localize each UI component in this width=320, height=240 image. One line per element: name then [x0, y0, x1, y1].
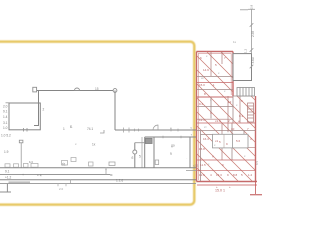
corridor wall y=167.8: [0, 167, 196, 169]
hatch line: [125, 40, 270, 185]
top short horizontal: [240, 9, 248, 11]
white room boxes in red zone: [213, 134, 249, 148]
interior horizontal y=142.7: [135, 142, 145, 144]
red mark bottom right: [255, 182, 257, 195]
door box at x=110: [109, 162, 115, 166]
small closet box: [155, 160, 159, 165]
svg-text:+: +: [229, 185, 231, 189]
internal wall y=147.7: [228, 147, 256, 149]
red internal wall y=170.7: [197, 170, 256, 172]
tick x=70: [70, 180, 72, 184]
svg-text:74.1: 74.1: [87, 127, 93, 131]
inner wall y=174.5 left part: [0, 174, 110, 176]
hatch line: [209, 40, 320, 185]
wall: east wall of hall upper: [114, 91, 116, 131]
red internal wall y=82.5: [197, 82, 234, 84]
tick on wall: [170, 129, 172, 132]
slash tick 2: [250, 48, 254, 52]
short gray step segment: [186, 170, 197, 172]
svg-text:15: 15: [95, 87, 99, 91]
dark window band on base line: [9, 181, 31, 183]
svg-text:13.3: 13.3: [216, 173, 222, 177]
red bottom second line: [197, 184, 257, 186]
svg-text:х: х: [236, 103, 238, 107]
yellow highlight box: [0, 42, 194, 205]
wall: long wall y=128.7: [115, 129, 196, 131]
door ticks at x=113-121: [123, 128, 125, 133]
svg-text:9.1: 9.1: [5, 170, 10, 174]
svg-text:.: .: [187, 156, 188, 160]
svg-text:х1: х1: [215, 139, 219, 143]
top tick: [248, 8, 255, 10]
svg-text:х1.3: х1.3: [215, 119, 221, 123]
internal wall y=123: [197, 122, 256, 124]
svg-text:Б: Б: [70, 125, 73, 129]
internal wall y=160: [197, 159, 256, 161]
door gap ticks on wall D: [134, 129, 136, 132]
hatch line: [111, 40, 256, 185]
svg-text:2.0: 2.0: [59, 187, 64, 191]
short vertical x=106: [105, 168, 107, 175]
svg-text:3.60: 3.60: [251, 57, 255, 63]
svg-text:5: 5: [241, 173, 243, 177]
internal wall y=132: [197, 130, 256, 132]
svg-text:+: +: [22, 173, 24, 177]
svg-text:8.5: 8.5: [255, 160, 259, 165]
annex top tick: [6, 102, 10, 104]
hatch line: [139, 40, 284, 185]
svg-text:1х: 1х: [92, 143, 96, 147]
internal vertical x=240: [239, 96, 241, 123]
red building outline: [197, 52, 258, 182]
svg-text:8.3: 8.3: [239, 114, 244, 118]
slash tick 3: [250, 65, 254, 69]
svg-text:+ 4: + 4: [37, 174, 42, 178]
marker square at left end of top wall: [33, 87, 37, 92]
red internal wall y=106.5: [197, 106, 234, 108]
svg-text:16.4: 16.4: [203, 137, 209, 141]
door swing on wall: [153, 125, 158, 130]
svg-text:3.1: 3.1: [3, 121, 8, 125]
svg-text:ю: ю: [110, 173, 113, 177]
room top y=134.5: [201, 134, 249, 136]
hatch line: [97, 40, 242, 185]
svg-text:6: 6: [200, 56, 202, 60]
red room labels: [199, 56, 253, 193]
hatch line: [223, 40, 320, 185]
svg-text:10: 10: [231, 127, 235, 131]
svg-text:1 2.6: 1 2.6: [116, 179, 123, 183]
interior vertical x=190: [189, 137, 191, 168]
small boxes near corridor: [62, 161, 68, 166]
svg-text:д: д: [212, 154, 214, 158]
svg-text:8.8: 8.8: [233, 173, 238, 177]
red hatch diagonals: [55, 40, 320, 185]
internal vertical x=228 low: [227, 96, 229, 132]
tick on wall y=137: [162, 136, 164, 138]
ticks below base line: [57, 184, 59, 187]
hatch line: [69, 40, 214, 185]
svg-text:с: с: [191, 126, 193, 130]
svg-text:1.9: 1.9: [4, 150, 9, 154]
hatch line: [237, 40, 320, 185]
left annex room outline: [9, 103, 40, 130]
hatch line: [153, 40, 298, 185]
svg-text:хт: хт: [204, 125, 207, 129]
red internal wall y=97: [197, 96, 234, 98]
svg-text:1.2: 1.2: [244, 48, 248, 53]
dark shaft box: [145, 138, 152, 143]
svg-text:2: 2: [228, 119, 230, 123]
svg-text:1.4: 1.4: [3, 115, 8, 119]
porch at bottom left: [0, 184, 7, 192]
svg-text:х: х: [218, 71, 220, 75]
svg-text:12.1: 12.1: [199, 118, 205, 122]
wall: top facade of left building: [35, 90, 116, 92]
svg-text:х2.1: х2.1: [193, 164, 199, 168]
staircase comb top: [237, 88, 255, 97]
svg-text:б1: б1: [62, 163, 66, 167]
svg-text:15.8: 15.8: [199, 147, 205, 151]
svg-text:5.6: 5.6: [236, 139, 241, 143]
interior wall y=137: [145, 136, 196, 138]
svg-text:2: 2: [43, 108, 45, 112]
svg-text:12.6: 12.6: [199, 173, 205, 177]
interior vertical x=134.8 with circle: [134, 143, 136, 168]
svg-text:15.0: 15.0: [199, 83, 205, 87]
hatch line: [195, 40, 320, 185]
svg-text:11.5: 11.5: [200, 163, 206, 167]
hatch line: [167, 40, 312, 185]
red internal wall y=89.6: [197, 89, 234, 91]
interior vertical x=154: [153, 137, 155, 168]
svg-text:13: 13: [228, 100, 232, 104]
svg-text:ь с: ь с: [29, 160, 34, 164]
svg-text:9: 9: [241, 99, 243, 103]
svg-text:1х: 1х: [233, 40, 237, 44]
svg-text:4: 4: [210, 173, 212, 177]
marker circle on top wall: [75, 88, 80, 91]
hatch line: [251, 40, 320, 185]
svg-text:9.4: 9.4: [199, 102, 204, 106]
room vertical x=244: [243, 131, 245, 148]
internal vertical x=233 low: [232, 96, 234, 123]
internal vertical x=222: [221, 52, 223, 65]
south facade y=179.8: [0, 179, 196, 181]
svg-text:х: х: [75, 142, 77, 146]
svg-text:5: 5: [215, 63, 217, 67]
slash tick 1: [250, 23, 254, 27]
svg-text:9: 9: [170, 152, 172, 156]
hatch line: [83, 40, 228, 185]
svg-text:15.0 1: 15.0 1: [215, 189, 225, 193]
svg-text:14.9: 14.9: [203, 68, 209, 72]
svg-text:5: 5: [139, 155, 141, 159]
hatch line: [181, 40, 320, 185]
interior vertical x=142: [141, 137, 143, 168]
staircase comb right: [248, 103, 254, 122]
room vertical x=200.5: [200, 131, 202, 182]
svg-text:х: х: [244, 154, 246, 158]
gray micro marks in red zone: [201, 54, 246, 166]
tick on wall: [177, 129, 179, 132]
base line y=183.6: [0, 183, 196, 185]
window boxes above corridor wall: [5, 164, 10, 167]
wall: west wall of hall: [34, 91, 39, 126]
marker circle at top wall right end: [113, 89, 117, 93]
internal vertical x=211: [210, 52, 212, 77]
svg-text:9.1: 9.1: [3, 110, 8, 114]
interior vertical x=144.7: [144, 137, 146, 168]
svg-text:1.0: 1.0: [3, 126, 8, 130]
svg-text:х: х: [206, 54, 208, 58]
svg-text:т: т: [191, 133, 193, 137]
svg-text:до: до: [171, 144, 175, 148]
red internal wall y=76.4: [197, 75, 234, 77]
internal vertical x=211 mid: [210, 97, 212, 119]
step marks near junction: [100, 130, 104, 133]
internal vertical x=222 low: [221, 123, 223, 160]
svg-text:1.2: 1.2: [248, 173, 253, 177]
room vertical x=232: [231, 123, 233, 160]
svg-text:б: б: [132, 156, 134, 160]
svg-text:+1.2: +1.2: [5, 176, 12, 180]
vertical dimension line: [251, 9, 253, 53]
svg-text:2.0: 2.0: [3, 105, 8, 109]
svg-text:9: 9: [227, 173, 229, 177]
svg-text:2.9: 2.9: [250, 4, 254, 9]
svg-text:1.0 5.2: 1.0 5.2: [1, 134, 11, 138]
svg-text:х: х: [208, 162, 210, 166]
annex door opening ticks: [23, 128, 25, 132]
hatch line: [55, 40, 200, 185]
svg-text:2.55: 2.55: [251, 31, 255, 37]
gray annex room right of red block: [233, 54, 252, 81]
svg-text:.1: .1: [212, 83, 215, 87]
svg-text:1: 1: [63, 127, 65, 131]
red internal wall y=119.2: [197, 118, 234, 120]
column with box, x=21: [19, 140, 23, 143]
